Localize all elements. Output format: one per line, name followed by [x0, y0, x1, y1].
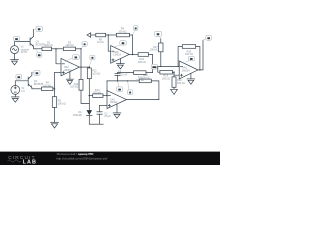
wire OA2 plus input	[55, 72, 62, 74]
node bubble OA5 output	[127, 81, 132, 94]
resistor R19	[172, 72, 185, 87]
resistor R15	[160, 70, 173, 80]
ground below OA2	[66, 72, 73, 85]
wire R9 right, down to OA6 output	[130, 35, 133, 55]
svg-text:MrsGomersall / opamp PID: MrsGomersall / opamp PID	[57, 152, 95, 156]
svg-text:100 kΩ: 100 kΩ	[70, 86, 78, 89]
op-amp OA5	[107, 91, 127, 109]
wire R14 up to rail	[146, 66, 153, 72]
wire R4 to node	[53, 88, 55, 90]
wire C3 to OA5 plus input	[100, 104, 107, 106]
resistor R1	[42, 41, 53, 50]
footer bar	[0, 152, 220, 165]
wire R11 to node A	[88, 79, 90, 104]
wire R10 right, down to sum rail	[149, 55, 153, 67]
ground below V2	[11, 97, 19, 102]
op-amp OA1	[179, 61, 198, 79]
wire R15 to divider node	[172, 71, 174, 73]
diode D1	[73, 103, 92, 124]
svg-text:10 nF: 10 nF	[121, 74, 128, 77]
op-amp OA6	[111, 46, 130, 64]
svg-text:0 V: 0 V	[21, 90, 25, 93]
wire OA2 plus chain down	[54, 73, 56, 89]
resistor R12	[70, 67, 83, 90]
node bubble OA2 output	[89, 55, 95, 67]
wire bottom rail to C3	[89, 123, 103, 125]
svg-text:BC557B: BC557B	[34, 83, 44, 86]
wire R18 right, down to OA5 output	[151, 81, 159, 100]
svg-text:40 Hz: 40 Hz	[21, 51, 28, 54]
wire R3 to ground	[54, 107, 56, 122]
wire V2 bottom	[14, 94, 16, 97]
svg-text:100 kΩ: 100 kΩ	[185, 53, 193, 56]
wire V2 top to Q2 base	[15, 81, 28, 86]
node bubble V2 top	[15, 74, 21, 80]
wire R17 to rail	[160, 52, 162, 67]
ground below OA6	[117, 59, 125, 69]
wire rail drop to R15	[158, 66, 160, 72]
resistor R2 feedback	[63, 41, 75, 50]
ground below R3	[51, 122, 59, 128]
ground below OA1	[187, 74, 195, 85]
node bubble Q1 emitter	[35, 49, 42, 57]
resistor R16 feedback OA1	[178, 45, 200, 70]
ground below V1	[11, 60, 19, 65]
svg-text:LAB: LAB	[23, 159, 37, 165]
wire node down to R3	[54, 89, 56, 97]
wire R2 right to feedback node	[76, 48, 81, 50]
wire OA6 output to R10	[129, 54, 138, 56]
svg-text:100 kΩ: 100 kΩ	[58, 102, 66, 105]
op-amp OA2	[61, 58, 79, 75]
wire OA1 output	[198, 40, 203, 70]
wire down to OA6 minus input	[108, 35, 111, 51]
wire R12 down and across	[81, 90, 89, 103]
transistor Q2	[28, 72, 43, 89]
transistor Q1	[30, 29, 45, 49]
wire Q2 emitter to R4	[32, 88, 42, 90]
wire Q1 emitter to R1	[34, 48, 42, 50]
svg-text:LM324: LM324	[64, 69, 72, 72]
wire divider to OA1 plus input	[174, 72, 179, 75]
svg-text:100 kΩ: 100 kΩ	[162, 77, 170, 80]
node bubble +9V	[154, 31, 161, 39]
CircuitLab logo	[8, 155, 37, 165]
svg-text:LM324: LM324	[182, 69, 190, 72]
wire R1 to R2, node to OA2 inverting input	[52, 48, 64, 50]
voltage source V2	[11, 86, 25, 95]
wire C1 to R14	[118, 72, 134, 74]
wire feedback vertical to output	[80, 49, 82, 67]
resistor R14	[134, 71, 146, 82]
resistor R3	[52, 97, 66, 108]
wire R8 to R9	[106, 34, 117, 36]
svg-text:100 kΩ: 100 kΩ	[118, 30, 126, 33]
sum rail to OA1	[153, 65, 180, 67]
svg-text:100 kΩ: 100 kΩ	[66, 44, 74, 47]
node bubble Q2 collector	[32, 70, 40, 75]
wire V1 bottom	[14, 54, 16, 60]
annotation bubble OA2	[65, 55, 80, 62]
svg-text:10 kΩ: 10 kΩ	[97, 41, 104, 44]
ground below OA5	[113, 104, 121, 118]
svg-text:100 kΩ: 100 kΩ	[136, 79, 144, 82]
node bubble V1 top	[14, 36, 20, 41]
resistor R8	[96, 33, 106, 44]
node bubble sum	[151, 64, 157, 69]
net flag error	[87, 33, 96, 38]
svg-text:100 kΩ: 100 kΩ	[138, 61, 146, 64]
OA5 feedback rail	[107, 80, 139, 82]
wire V1 top to Q1 base	[15, 42, 30, 46]
wire OA2 output	[79, 66, 89, 68]
resistor R13	[89, 89, 107, 98]
annotation bubble OA1	[185, 56, 194, 62]
annotation bubble OA6	[115, 41, 127, 47]
node bubble R9 right	[133, 26, 138, 35]
capacitor C3	[97, 105, 111, 124]
wire down to OA2 minus input	[56, 49, 61, 64]
ground flag below R19	[171, 87, 178, 94]
node bubble OA5 rail	[117, 81, 123, 91]
node bubble output	[203, 35, 212, 40]
resistor R4	[42, 82, 53, 91]
node bubble R2 right	[81, 42, 87, 49]
svg-text:1N914B: 1N914B	[73, 114, 82, 117]
OA5 feedback vertical	[106, 81, 108, 96]
svg-text:LM324: LM324	[113, 54, 121, 57]
svg-text:100 kΩ: 100 kΩ	[177, 82, 185, 85]
svg-text:100 kΩ: 100 kΩ	[150, 49, 158, 52]
resistor R18 feedback OA5	[139, 74, 151, 83]
svg-text:100 kΩ: 100 kΩ	[45, 44, 53, 47]
svg-text:http://circuitlab.com/c/59fh3w: http://circuitlab.com/c/59fh3w/opamp-pid…	[56, 157, 107, 161]
resistor R11	[87, 67, 100, 79]
resistor R9	[116, 28, 129, 37]
svg-text:100 kΩ: 100 kΩ	[92, 73, 100, 76]
capacitor C1	[115, 70, 128, 81]
resistor R10	[138, 53, 149, 64]
resistor R17	[150, 39, 163, 52]
svg-text:47 µF: 47 µF	[104, 115, 111, 118]
wire OA5 output	[127, 99, 159, 101]
svg-text:100 kΩ: 100 kΩ	[43, 84, 51, 87]
voltage source V1	[11, 45, 30, 54]
svg-text:100 kΩ: 100 kΩ	[93, 92, 101, 95]
node bubble Q1 collector	[34, 26, 43, 31]
